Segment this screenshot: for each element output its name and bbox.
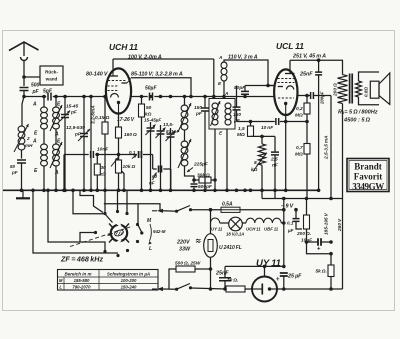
inductor band coil E2 tunable bbox=[50, 142, 62, 168]
wire anode line 251V bbox=[290, 59, 343, 61]
ground symbol bbox=[16, 190, 30, 198]
node heater tap bbox=[209, 208, 286, 225]
wire trim osc A top bbox=[150, 122, 152, 128]
wire switch to mains bbox=[138, 204, 160, 210]
svg-text:260 V: 260 V bbox=[337, 218, 343, 232]
svg-text:25nF: 25nF bbox=[215, 271, 229, 277]
node 10uF dots bbox=[305, 240, 333, 255]
wire barretter bottom bbox=[210, 257, 212, 269]
wire 0,1M bottom bbox=[104, 134, 106, 190]
node bus dots mid bbox=[149, 95, 247, 99]
node bottom dots bbox=[282, 287, 333, 291]
svg-text:3349GW: 3349GW bbox=[352, 182, 384, 192]
wire -9V up bbox=[283, 199, 285, 210]
wire osc coil1-2 bbox=[184, 130, 186, 141]
svg-text:25 µF: 25 µF bbox=[287, 274, 302, 280]
wire pot top bbox=[118, 155, 120, 161]
wire UCL cathode down bbox=[285, 115, 287, 191]
svg-text:0,8Ω: 0,8Ω bbox=[364, 87, 369, 97]
node barretter dots bbox=[209, 267, 213, 291]
wire 60nF right bbox=[163, 168, 171, 170]
capacitor 25nF anode bbox=[315, 72, 322, 75]
node antenna tap bbox=[22, 75, 26, 79]
node AVC dots bbox=[96, 153, 121, 157]
svg-text:Bereich in m: Bereich in m bbox=[64, 271, 91, 276]
potentiometer 10kOhm bbox=[111, 158, 135, 174]
svg-text:Schwingstrom in µA: Schwingstrom in µA bbox=[107, 271, 150, 276]
label A top coil2 bbox=[32, 139, 37, 145]
barretter U2410FL bbox=[204, 234, 242, 258]
svg-text:2,5: 2,5 bbox=[270, 157, 278, 163]
potentiometer 8kOhm volume bbox=[251, 144, 267, 173]
Brandt Favorit label box bbox=[347, 159, 389, 192]
label 80-140V bbox=[86, 72, 108, 78]
resistor 30 Ohm bbox=[226, 278, 245, 293]
svg-text:5k Ω.: 5k Ω. bbox=[316, 269, 327, 275]
label -9V bbox=[281, 204, 294, 210]
wire 30k left bbox=[194, 179, 199, 181]
capacitor 0,1uF AVC bbox=[129, 150, 141, 159]
svg-text:33W: 33W bbox=[179, 247, 191, 253]
svg-text:pF: pF bbox=[195, 111, 203, 117]
wire 0,1uF bottom bbox=[296, 221, 302, 229]
transformer secondary 0,8 Ohm bbox=[356, 81, 369, 97]
svg-text:0,2: 0,2 bbox=[296, 106, 303, 112]
fuse 0,5A bbox=[221, 202, 240, 213]
wire 150pF det top bbox=[236, 86, 238, 108]
wire coil1 to coil2 right bbox=[55, 129, 57, 144]
wire main bus bbox=[53, 96, 106, 98]
svg-text:2: 2 bbox=[26, 136, 30, 141]
resistor 0,7MOhm bbox=[295, 144, 310, 158]
svg-text:0,5A: 0,5A bbox=[222, 202, 233, 208]
wire AVC right drop bbox=[152, 155, 154, 170]
label 251V 45mA bbox=[292, 54, 326, 60]
resistor 50kOhm screen bbox=[139, 104, 152, 118]
speaker bbox=[370, 73, 390, 105]
wire 1,5M bottom line bbox=[251, 135, 276, 137]
resistor 200 Ohm output bbox=[333, 75, 348, 104]
svg-text:A: A bbox=[32, 102, 37, 108]
wire diode line bbox=[297, 95, 310, 97]
heater UCH11 bumps bbox=[246, 218, 264, 231]
wire 2,5nF bottom bbox=[274, 155, 276, 190]
svg-text:Rₐ= 5 Ω / 800Hz: Rₐ= 5 Ω / 800Hz bbox=[338, 110, 378, 116]
wire 25nF top bbox=[318, 60, 320, 72]
wire 8k top bbox=[261, 136, 263, 144]
wire switch right line bbox=[104, 204, 138, 225]
svg-text:A: A bbox=[32, 139, 37, 145]
svg-text:L: L bbox=[149, 246, 152, 252]
capacitor 25uF bbox=[276, 273, 302, 283]
svg-text:pF: pF bbox=[32, 89, 40, 95]
capacitor 10nF AVC bbox=[91, 147, 110, 159]
wire switch loop 3 bbox=[73, 190, 104, 214]
node -9V bbox=[282, 208, 286, 212]
wire antenna lead bbox=[23, 61, 25, 87]
label UCH11 bbox=[109, 42, 138, 52]
svg-text:MΩ: MΩ bbox=[295, 152, 303, 158]
label E top coil2 bbox=[57, 139, 61, 145]
switch selector dashed line bbox=[70, 226, 133, 247]
wire heater drop bbox=[210, 210, 212, 223]
label A IF2 bbox=[218, 55, 223, 61]
label A top coil1 bbox=[32, 102, 37, 108]
svg-text:25nF: 25nF bbox=[299, 72, 313, 78]
capacitor 0,1uF bias bbox=[287, 219, 300, 233]
wire UCL anode up bbox=[289, 60, 291, 69]
wire 0,2M bottom bbox=[306, 114, 308, 122]
svg-text:UCH 11: UCH 11 bbox=[109, 42, 138, 52]
wire main bus mid bbox=[154, 96, 274, 98]
wire 500ohm right bbox=[195, 268, 211, 270]
wire 200bias top bbox=[306, 199, 308, 216]
svg-text:30: 30 bbox=[101, 165, 107, 171]
svg-text:0,1: 0,1 bbox=[287, 221, 294, 226]
svg-text:M: M bbox=[59, 278, 63, 283]
svg-text:A: A bbox=[218, 55, 223, 61]
wire osc varcap top bbox=[170, 128, 172, 134]
svg-text:2,5-3,5 mA: 2,5-3,5 mA bbox=[324, 135, 330, 160]
label 2,5-3,5mA bbox=[324, 135, 330, 160]
capacitor 150pF det bbox=[233, 107, 242, 124]
capacitor 5pF series bbox=[43, 89, 53, 101]
svg-text:MΩ: MΩ bbox=[237, 132, 245, 138]
wire UY11 heater up bbox=[264, 266, 266, 276]
wire 25nF to ground bbox=[318, 75, 320, 190]
svg-text:50: 50 bbox=[10, 164, 16, 169]
svg-text:15-45: 15-45 bbox=[66, 104, 79, 110]
wire switch right diag bbox=[138, 225, 142, 233]
label UY11 big bbox=[256, 258, 281, 269]
node grid-line dot bbox=[266, 84, 270, 88]
wire screen line bbox=[131, 78, 191, 97]
wire cathode resistor to bus bbox=[118, 138, 120, 190]
wire IF1 right down bbox=[226, 129, 228, 190]
switch mains top bbox=[175, 206, 192, 213]
label E IF1 bbox=[219, 131, 223, 137]
wire 1,5M top bbox=[250, 122, 252, 127]
wire secondary bottom bbox=[359, 97, 380, 105]
node ground bus dots bbox=[20, 189, 321, 193]
inductor antenna coil E1 tunable bbox=[50, 105, 62, 131]
wire link 276 bbox=[274, 190, 276, 198]
resistor 0,2MOhm bbox=[295, 103, 310, 119]
wire switch tap 232 bbox=[80, 233, 95, 243]
wire heater a bbox=[220, 222, 229, 224]
svg-text:pF: pF bbox=[70, 110, 78, 116]
svg-text:UBF 11: UBF 11 bbox=[264, 227, 279, 232]
wire trimmer top bbox=[64, 97, 66, 115]
svg-text:160 Ω: 160 Ω bbox=[124, 132, 137, 138]
wire 5k bottom bbox=[330, 277, 332, 290]
node cathode line dots bbox=[263, 265, 286, 269]
svg-text:12,9-530: 12,9-530 bbox=[66, 125, 85, 131]
wire 0,1M top bbox=[104, 97, 106, 123]
heater UY11 bump bbox=[211, 218, 223, 231]
svg-text:50: 50 bbox=[146, 105, 152, 111]
wire 2mH drop bbox=[22, 97, 24, 127]
svg-text:+: + bbox=[276, 277, 280, 283]
svg-text:nF: nF bbox=[149, 181, 155, 186]
wire det return line bbox=[237, 121, 275, 123]
wire to Rueckwand box bbox=[24, 76, 40, 78]
resistor 0,1MOhm grid leak bbox=[95, 115, 110, 134]
wire IF2 coil to box bbox=[223, 81, 225, 99]
svg-text:8: 8 bbox=[254, 160, 257, 166]
wire switch contact top2 bbox=[117, 190, 119, 210]
svg-text:UY 11: UY 11 bbox=[256, 258, 281, 269]
wire main bus right of UCH11 bbox=[131, 96, 147, 98]
svg-text:pF: pF bbox=[11, 170, 18, 175]
wire 25nF UY bottom bbox=[224, 281, 226, 289]
wire switch diag 3 bbox=[105, 214, 113, 223]
svg-text:UCL 11: UCL 11 bbox=[276, 41, 304, 51]
svg-text:790-2070: 790-2070 bbox=[72, 285, 91, 290]
tube UCL11 bbox=[274, 69, 297, 115]
wire 30ohm to UY11 bbox=[245, 288, 252, 290]
wire 5k top bbox=[330, 254, 332, 265]
label 220V bbox=[176, 239, 201, 252]
svg-text:pF: pF bbox=[74, 132, 82, 138]
rotary band switch bbox=[109, 223, 129, 243]
wire secondary top bbox=[359, 72, 380, 81]
svg-text:15-45µF: 15-45µF bbox=[144, 118, 161, 123]
wire 50k bottom bbox=[141, 117, 143, 190]
svg-text:942-M: 942-M bbox=[153, 229, 166, 234]
label 225pF bbox=[187, 162, 209, 173]
svg-text:500 Ω, 25W: 500 Ω, 25W bbox=[175, 261, 201, 267]
wire main bus left bbox=[24, 96, 46, 98]
svg-text:1,5: 1,5 bbox=[238, 126, 245, 132]
wire 0,7M bottom bbox=[306, 154, 308, 199]
wire screen rail UCL bbox=[330, 96, 332, 199]
svg-text:kΩ: kΩ bbox=[100, 172, 107, 178]
label 3,2-6mA bbox=[91, 105, 97, 124]
wire 30kAVC bottom bbox=[96, 175, 98, 190]
wire 50pF down bbox=[244, 94, 246, 96]
svg-text:4500 : 5 Ω: 4500 : 5 Ω bbox=[343, 118, 371, 124]
wire 0,2M top bbox=[306, 96, 308, 104]
wire barretter down bbox=[210, 269, 212, 289]
wire B+ rail bbox=[342, 104, 344, 290]
variable capacitor 12,9-530pF bbox=[66, 125, 90, 141]
svg-text:13,5-: 13,5- bbox=[163, 122, 174, 127]
wire 30k right bbox=[211, 179, 215, 181]
node switch contacts bbox=[94, 210, 143, 257]
svg-text:10 nF: 10 nF bbox=[261, 125, 274, 131]
svg-text:5pF: 5pF bbox=[43, 89, 53, 95]
svg-text:200 Ω.: 200 Ω. bbox=[296, 231, 311, 237]
label 150pF IF bbox=[194, 105, 203, 117]
svg-text:U 2410 FL: U 2410 FL bbox=[219, 245, 242, 251]
svg-text:220V: 220V bbox=[176, 240, 190, 246]
svg-text:10k Ω: 10k Ω bbox=[123, 164, 136, 170]
wire trim osc B top bbox=[160, 125, 162, 131]
capacitor 2,5nF bbox=[270, 152, 279, 168]
mains plug bottom bbox=[152, 287, 163, 291]
capacitor 25nF UY bbox=[215, 271, 231, 281]
trimmer 15-45pF input bbox=[60, 104, 79, 122]
wire anode line down to IF1 bbox=[213, 59, 215, 99]
label A IF1 bbox=[224, 91, 229, 97]
wire diode line b bbox=[314, 95, 331, 97]
wire 150pF IF top bbox=[204, 97, 206, 109]
svg-text:200 Ω: 200 Ω bbox=[333, 83, 339, 97]
inductor oscillator coil 1 bbox=[178, 103, 191, 132]
wire osc varcap bottom bbox=[170, 137, 172, 190]
label UCL11 bbox=[276, 41, 304, 51]
capacitor 150pF IF bbox=[201, 108, 209, 111]
svg-text:UY 11: UY 11 bbox=[211, 227, 223, 232]
label 25nF anode bbox=[299, 72, 313, 78]
trimmer osc B bbox=[156, 128, 166, 139]
wire 25nF UY top bbox=[224, 266, 226, 277]
capacitor 60nF bbox=[149, 166, 161, 186]
inductor 2mH bbox=[14, 124, 33, 152]
svg-text:ZF = 468 kHz: ZF = 468 kHz bbox=[60, 255, 103, 264]
wire cathode down bbox=[118, 114, 120, 128]
wire trim osc B bottom bbox=[160, 134, 162, 190]
label 185-195V bbox=[324, 212, 330, 235]
wire 500pF to bus bbox=[193, 188, 195, 191]
inductor antenna coil A1 bbox=[41, 107, 48, 129]
svg-text:mH: mH bbox=[25, 143, 33, 148]
wire 2mH to 50pF bbox=[21, 150, 23, 159]
svg-text:0,1MΩ: 0,1MΩ bbox=[95, 115, 110, 121]
wire ground bus bbox=[3, 189, 319, 191]
node line2 dots bbox=[282, 197, 333, 201]
wire mains top a bbox=[163, 210, 177, 212]
inductor band coil A2 bbox=[41, 144, 48, 166]
svg-text:50µF: 50µF bbox=[145, 86, 157, 92]
resistor 1,5MOhm bbox=[237, 126, 254, 138]
wire 150pF det bottom bbox=[236, 110, 238, 122]
svg-text:10nF: 10nF bbox=[97, 147, 109, 153]
wire barretter top bbox=[210, 223, 212, 234]
wire osc coil1 top bbox=[184, 97, 186, 106]
label 110V 3mA bbox=[228, 55, 258, 61]
node 25nF dot bbox=[223, 287, 227, 291]
wire varcap bottom bbox=[83, 137, 85, 191]
label 85-110V bbox=[131, 72, 183, 78]
resistor 160 Ohm cathode bbox=[116, 127, 137, 138]
node bus dot 141 bbox=[140, 95, 144, 99]
capacitor 50pF left bbox=[10, 160, 26, 175]
wire switch loop 2 bbox=[48, 190, 105, 250]
wire antenna cap to bus bbox=[23, 91, 25, 97]
svg-text:17-26 V: 17-26 V bbox=[117, 117, 135, 123]
wire mains bottom b bbox=[191, 288, 227, 289]
svg-text:MΩ: MΩ bbox=[295, 113, 303, 119]
transformer core bbox=[350, 74, 353, 104]
node anode dot bbox=[317, 58, 321, 62]
wire switch contact top3 bbox=[126, 190, 128, 212]
svg-text:150-240: 150-240 bbox=[121, 285, 137, 290]
wire 50pF up bbox=[244, 86, 246, 92]
capacitor 10nF det bbox=[261, 118, 279, 131]
wire link bus-line2 bbox=[261, 190, 263, 198]
wire mains bottom a bbox=[163, 288, 177, 290]
label E IF2 bbox=[218, 81, 222, 87]
wire 0,7M top bbox=[306, 122, 308, 144]
wire heater b bbox=[242, 222, 246, 224]
wire IF1 left down bbox=[214, 129, 216, 190]
wire mains top b bbox=[191, 209, 222, 211]
wire AVC line c bbox=[143, 154, 153, 156]
capacitor 50pF det bbox=[241, 91, 249, 94]
svg-text:3,2-6mA: 3,2-6mA bbox=[91, 105, 97, 124]
wire switch stub a bbox=[80, 190, 103, 212]
capacitor 200pF diode bbox=[311, 92, 314, 99]
wire 200ohm top bbox=[342, 60, 344, 74]
trimmer 15-45uF osc A bbox=[144, 118, 161, 136]
inductor oscillator coil 2 bbox=[178, 139, 191, 168]
lamp dial 18V 0,1A bbox=[226, 217, 244, 236]
wire 10uF right bbox=[321, 241, 331, 243]
label Ra bbox=[338, 110, 378, 116]
tube UCH11 bbox=[106, 68, 131, 113]
table Bereich bbox=[58, 270, 159, 291]
label 17-26V bbox=[117, 117, 135, 123]
wire grid line UCL bbox=[245, 85, 274, 87]
label 200pF rot bbox=[320, 91, 325, 105]
wire bottom rail right bbox=[277, 288, 343, 290]
wire 2,5nF top bbox=[274, 136, 276, 152]
label 100V 2-0mA bbox=[128, 55, 162, 61]
wire IF2 top line bbox=[224, 60, 274, 86]
wire det return line b bbox=[280, 121, 307, 123]
node bus dots left bbox=[22, 95, 107, 99]
inductor IF2 small coil bbox=[221, 62, 227, 81]
capacitor 50uF series bbox=[145, 86, 157, 101]
label ZF bbox=[60, 255, 103, 264]
wire mains top c bbox=[240, 209, 284, 211]
antenna bbox=[9, 42, 39, 61]
svg-text:µF: µF bbox=[287, 228, 294, 233]
wire 30kAVC top bbox=[96, 155, 98, 165]
wire 10uF left bbox=[307, 241, 318, 243]
svg-text:185-580: 185-580 bbox=[74, 278, 90, 283]
wire coil2 left down bbox=[43, 166, 45, 190]
resistor 5kOhm bbox=[316, 265, 335, 277]
svg-text:Favorit: Favorit bbox=[354, 172, 383, 182]
svg-text:0,7: 0,7 bbox=[296, 145, 303, 151]
wire return line2 bbox=[262, 198, 343, 200]
svg-text:0,1: 0,1 bbox=[129, 150, 136, 155]
wire switch contact top1 bbox=[104, 190, 106, 212]
svg-text:80-140 V: 80-140 V bbox=[86, 72, 108, 78]
capacitor 500pF osc bbox=[191, 184, 213, 190]
wire cathode line top bbox=[225, 265, 284, 267]
label 50pF det bbox=[234, 85, 246, 91]
svg-text:+: + bbox=[317, 247, 321, 253]
node diode dots bbox=[305, 94, 309, 124]
resistor 500 Ohm 25W bbox=[175, 261, 201, 273]
wire trim osc A bottom bbox=[150, 131, 152, 190]
capacitor 500pF antenna bbox=[20, 83, 40, 96]
resistor 30kOhm AVC bbox=[94, 164, 106, 178]
wire 0,1uF top bbox=[295, 210, 297, 219]
inductor IF1 secondary bbox=[225, 103, 231, 125]
wire trimmer bottom bbox=[64, 118, 66, 191]
tube UY11 bbox=[252, 277, 277, 302]
svg-text:251 V, 45 m A: 251 V, 45 m A bbox=[292, 54, 326, 60]
svg-text:Brandt: Brandt bbox=[354, 162, 382, 172]
wire heater end bbox=[281, 222, 284, 224]
svg-text:kΩ: kΩ bbox=[251, 167, 258, 173]
capacitor 10uF bbox=[301, 238, 321, 253]
